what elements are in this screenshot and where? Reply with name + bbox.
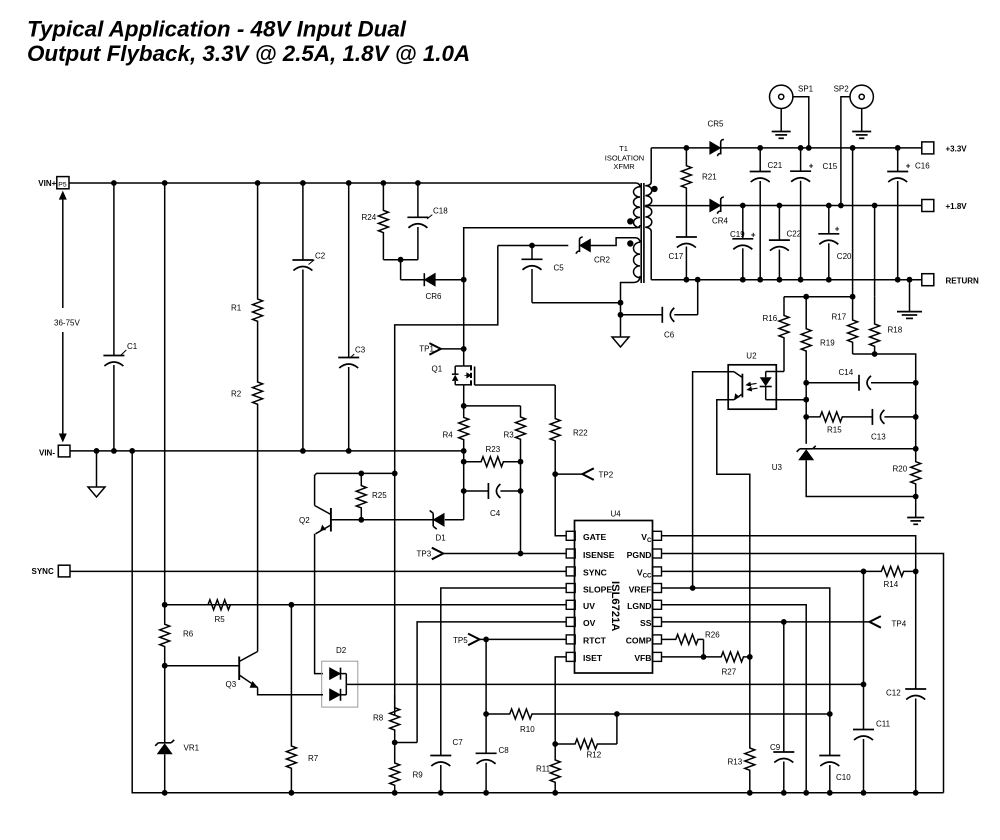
- wire VREF row: [661, 588, 830, 714]
- svg-text:+: +: [809, 161, 814, 170]
- wire Q2 emitter column: [315, 534, 323, 674]
- wire U2 collector: [693, 372, 729, 588]
- test point TP3: [417, 548, 567, 560]
- svg-text:R17: R17: [832, 313, 847, 322]
- node SS / C9 column: [781, 619, 787, 625]
- svg-text:R26: R26: [705, 631, 720, 640]
- resistor R14: [869, 566, 916, 589]
- svg-text:GATE: GATE: [583, 532, 607, 542]
- svg-text:T1: T1: [619, 144, 628, 153]
- svg-text:P5: P5: [58, 181, 67, 188]
- svg-text:VFB: VFB: [634, 653, 651, 663]
- node C4 left: [461, 488, 467, 494]
- node C21 / +3.3V: [757, 145, 763, 151]
- node VIN- / bottom-rail column: [129, 448, 135, 454]
- svg-text:R5: R5: [215, 615, 226, 624]
- wire R8-R9 node to OV column: [395, 742, 417, 744]
- svg-text:R9: R9: [413, 771, 424, 780]
- wire ISET jog: [555, 657, 566, 744]
- terminal RETURN: [922, 274, 979, 286]
- svg-text:U2: U2: [746, 352, 757, 361]
- capacitor C7: [430, 738, 463, 793]
- wire C6 to RETURN: [697, 280, 699, 315]
- node U2 cathode junction: [803, 397, 809, 403]
- test point TP2: [552, 468, 613, 480]
- svg-text:R16: R16: [763, 314, 778, 323]
- node R17 / +3.3V: [850, 145, 856, 151]
- node TP1 junction: [461, 346, 467, 352]
- capacitor C8: [476, 746, 510, 793]
- svg-text:R20: R20: [893, 465, 908, 474]
- wire +1.8V rail right: [721, 205, 922, 207]
- svg-text:R1: R1: [231, 304, 242, 313]
- wire C5 bottom to primary ground: [532, 302, 621, 304]
- transformer T1 core: [641, 183, 644, 283]
- resistor R20: [893, 449, 921, 497]
- wire VIN- rail: [70, 450, 464, 452]
- wire R19 column: [805, 383, 807, 444]
- node C22 / RETURN: [777, 277, 783, 283]
- resistor R18: [870, 297, 903, 354]
- svg-text:C7: C7: [453, 738, 464, 747]
- title text line 1: [27, 17, 407, 42]
- svg-text:D2: D2: [336, 646, 347, 655]
- capacitor C16 polarized: [887, 148, 930, 280]
- svg-text:C12: C12: [886, 689, 901, 698]
- node VREF / U2 collector: [690, 585, 696, 591]
- node VIN+ / C18: [415, 180, 421, 186]
- resistor R15: [806, 412, 848, 435]
- node R8 / R9 junction: [392, 740, 398, 746]
- resistor R5: [165, 600, 292, 624]
- svg-text:PGND: PGND: [627, 550, 652, 560]
- svg-text:R22: R22: [573, 429, 588, 438]
- svg-text:C2: C2: [315, 252, 326, 261]
- capacitor C3: [338, 183, 366, 451]
- node VIN- / C2: [300, 448, 306, 454]
- ground primary: [612, 337, 629, 347]
- resistor R16: [763, 297, 790, 372]
- node C17 / RETURN: [684, 277, 690, 283]
- svg-text:R25: R25: [372, 491, 387, 500]
- transformer primary phase dot: [627, 218, 633, 224]
- svg-text:R7: R7: [308, 754, 319, 763]
- svg-text:COMP: COMP: [626, 636, 652, 646]
- node TP5 / RTCT: [483, 637, 489, 643]
- svg-text:VREF: VREF: [629, 584, 652, 594]
- node R5/R6 junction: [162, 602, 168, 608]
- node C20 / RETURN: [826, 277, 832, 283]
- svg-text:C19: C19: [730, 230, 745, 239]
- svg-text:VIN+: VIN+: [38, 179, 56, 188]
- svg-text:R23: R23: [486, 445, 501, 454]
- resistor R1: [231, 183, 263, 352]
- svg-text:C14: C14: [839, 368, 854, 377]
- node C15 / +3.3V: [798, 145, 804, 151]
- wire +3.3V rail left: [651, 147, 710, 149]
- svg-text:R10: R10: [520, 725, 535, 734]
- optocoupler U2: [728, 352, 776, 410]
- node CR6 / drain column: [461, 277, 467, 283]
- svg-text:ISL6721A: ISL6721A: [609, 581, 621, 631]
- svg-text:D1: D1: [436, 534, 447, 543]
- node SP1 / +3.3V: [806, 145, 812, 151]
- resistor R17: [832, 297, 858, 354]
- node VIN+ / R24: [381, 180, 387, 186]
- svg-text:Q2: Q2: [299, 516, 310, 525]
- wire U2 emitter: [717, 400, 750, 657]
- svg-text:SP2: SP2: [834, 84, 850, 93]
- capacitor C5: [522, 246, 565, 303]
- wire RETURN rail: [651, 279, 922, 281]
- resistor R22: [550, 385, 588, 474]
- node SP2 / +1.8V: [838, 203, 844, 209]
- diode pair D2: [322, 646, 358, 707]
- wire SS row: [661, 621, 870, 623]
- svg-text:Typical Application - 48V Inpu: Typical Application - 48V Input Dual: [27, 17, 407, 42]
- wire +1.8V rail left: [645, 205, 709, 207]
- resistor R26: [661, 631, 720, 645]
- transformer secondary phase dot: [651, 186, 657, 192]
- svg-text:C8: C8: [499, 746, 510, 755]
- svg-text:C16: C16: [915, 162, 930, 171]
- wire PGND row: [661, 554, 944, 793]
- svg-text:LGND: LGND: [627, 601, 651, 611]
- wire U3 cathode to R20: [813, 448, 916, 450]
- wire D2 output row: [358, 683, 864, 685]
- node C6 / RETURN rail: [695, 277, 701, 283]
- node C20 / +1.8V: [826, 203, 832, 209]
- node bottom / C7: [438, 790, 444, 796]
- node C22 / +1.8V: [777, 203, 783, 209]
- svg-text:+3.3V: +3.3V: [946, 145, 968, 154]
- svg-text:C3: C3: [355, 346, 366, 355]
- svg-text:RTCT: RTCT: [583, 636, 607, 646]
- capacitor C1: [103, 183, 137, 451]
- svg-text:C1: C1: [127, 342, 138, 351]
- capacitor C2: [292, 183, 325, 451]
- node bottom / VR1: [162, 790, 168, 796]
- wire source node to R3: [464, 405, 521, 407]
- svg-text:R11: R11: [536, 765, 551, 774]
- wire U2 cathode to R19 node: [776, 399, 806, 401]
- node R10 / C10: [827, 711, 833, 717]
- svg-text:R15: R15: [827, 426, 842, 435]
- svg-text:C18: C18: [433, 207, 448, 216]
- wire Q3 collector: [257, 451, 259, 652]
- op-amp U4 ISL6721A: [566, 510, 661, 674]
- svg-text:TP5: TP5: [453, 636, 468, 645]
- svg-text:SLOPE: SLOPE: [583, 584, 612, 594]
- svg-text:U3: U3: [772, 463, 783, 472]
- svg-text:U4: U4: [611, 510, 622, 519]
- wire SYNC row: [70, 570, 566, 572]
- svg-text:C21: C21: [768, 161, 783, 170]
- wire R26 to VFB node: [703, 639, 705, 657]
- wire Q3 emitter to D2: [258, 688, 323, 695]
- svg-text:C15: C15: [823, 162, 838, 171]
- wire Q2 base row: [331, 519, 433, 521]
- node bottom / R7: [289, 790, 295, 796]
- wire R22 to GATE pin: [555, 474, 566, 536]
- node bottom / C10: [827, 790, 833, 796]
- svg-text:ISET: ISET: [583, 653, 603, 663]
- svg-text:CR2: CR2: [594, 256, 611, 265]
- wire OV row: [417, 622, 566, 743]
- transformer bias winding: [621, 238, 641, 303]
- resistor R2: [231, 352, 263, 451]
- svg-text:VIN-: VIN-: [39, 448, 55, 457]
- diode CR4 schottky: [710, 197, 729, 225]
- wire +3.3V rail right: [721, 147, 922, 149]
- resistor R21: [681, 148, 717, 206]
- node C15 / RETURN: [798, 277, 804, 283]
- node VIN- / ground: [94, 448, 100, 454]
- capacitor C6: [621, 307, 698, 340]
- node bottom / LGND: [803, 790, 809, 796]
- node D2 / C11 column: [861, 682, 867, 688]
- svg-text:OV: OV: [583, 618, 596, 628]
- wire Vc row: [661, 536, 916, 689]
- node bottom / C9: [781, 790, 787, 796]
- wire Vcc row: [661, 570, 869, 572]
- svg-text:C10: C10: [836, 773, 851, 782]
- svg-text:R8: R8: [373, 714, 384, 723]
- capacitor C11 cap: [853, 684, 891, 792]
- wire UV row: [165, 604, 567, 606]
- wire primary ground column: [620, 303, 622, 337]
- capacitor C14: [806, 368, 916, 391]
- diode CR6: [424, 273, 442, 301]
- node R27 / U2 emitter column: [747, 654, 753, 660]
- capacitor C21: [750, 148, 783, 280]
- ground RETURN: [897, 280, 922, 319]
- svg-text:Q1: Q1: [432, 365, 443, 374]
- resistor R17 upper lead: [852, 148, 854, 297]
- svg-text:SS: SS: [640, 618, 652, 628]
- wire left column R23-C4: [463, 462, 465, 491]
- wire C5 top corner: [498, 245, 532, 247]
- svg-text:R12: R12: [587, 751, 602, 760]
- wire CR6 to drain node: [435, 279, 463, 281]
- svg-text:C13: C13: [871, 433, 886, 442]
- wire Q2 collector loop: [315, 473, 395, 505]
- svg-text:VR1: VR1: [184, 744, 200, 753]
- svg-text:C4: C4: [490, 509, 501, 518]
- node R5 / R7 top: [289, 602, 295, 608]
- node VIN+ / C1: [111, 180, 117, 186]
- svg-text:TP3: TP3: [417, 550, 432, 559]
- terminal VIN+ P5: [38, 177, 69, 189]
- diode CR2 schottky: [576, 237, 610, 264]
- node TP3 / ISENSE column: [518, 551, 524, 557]
- node C19 / RETURN: [740, 277, 746, 283]
- svg-text:XFMR: XFMR: [613, 162, 635, 171]
- node R25 bottom / Q2 base: [358, 517, 364, 523]
- node C16 / +3.3V: [895, 145, 901, 151]
- svg-text:SP1: SP1: [798, 84, 814, 93]
- capacitor C9: [770, 622, 794, 793]
- node bottom / C11: [861, 790, 867, 796]
- svg-text:TP2: TP2: [599, 471, 614, 480]
- node C5 top: [529, 243, 535, 249]
- wire snubber to CR6: [401, 260, 425, 280]
- shunt reference U3: [772, 446, 816, 472]
- wire drain column: [463, 280, 465, 349]
- capacitor C13: [848, 409, 916, 442]
- wire primary return: [464, 228, 629, 280]
- terminal VIN-: [39, 445, 70, 457]
- wire Q1 gate: [475, 384, 556, 386]
- svg-text:R3: R3: [504, 431, 515, 440]
- wire CR2 anode to bias winding: [591, 238, 632, 246]
- wire R23 column upper: [463, 451, 465, 462]
- capacitor C19 polarized: [730, 206, 756, 280]
- zener VR1: [155, 666, 199, 793]
- wire VIN- to ground: [96, 451, 98, 487]
- node R16/R19/R17 tie top: [803, 294, 855, 300]
- wire right column R23-C4-ISENSE: [520, 462, 522, 554]
- resistor R3: [504, 406, 526, 462]
- svg-text:Q3: Q3: [226, 680, 237, 689]
- node C4 right: [518, 488, 524, 494]
- wire U3 anode: [806, 460, 916, 496]
- node R20 top: [913, 446, 919, 452]
- node ISET / R12 / R11: [552, 741, 558, 747]
- resistor R13: [728, 657, 755, 793]
- svg-text:R24: R24: [362, 213, 377, 222]
- wire R12 column: [616, 714, 618, 744]
- transformer secondary winding upper: [645, 148, 652, 206]
- node Vcc / C11 column: [861, 569, 867, 575]
- terminal SYNC: [32, 565, 71, 577]
- wire R17/R18 bottoms: [853, 354, 916, 383]
- svg-text:R27: R27: [722, 668, 737, 677]
- resistor R4: [443, 406, 469, 451]
- node R18 bottom: [872, 351, 878, 357]
- node R10 / R12 column: [614, 711, 620, 717]
- node VIN+ / C3: [346, 180, 352, 186]
- svg-text:TP4: TP4: [892, 620, 907, 629]
- svg-text:RETURN: RETURN: [946, 276, 980, 285]
- ground U3/R20: [907, 497, 924, 525]
- node bottom / C12: [913, 790, 919, 796]
- svg-text:Output Flyback, 3.3V @ 2.5A, 1: Output Flyback, 3.3V @ 2.5A, 1.8V @ 1.0A: [27, 41, 470, 66]
- svg-text:C20: C20: [837, 252, 852, 261]
- wire RTCT row: [486, 638, 566, 640]
- probe SP2: [834, 84, 874, 205]
- resistor R18 upper lead: [874, 206, 876, 297]
- transformer bias phase dot: [627, 240, 633, 246]
- node RETURN / ground: [907, 277, 913, 283]
- svg-text:R4: R4: [443, 431, 454, 440]
- svg-text:R21: R21: [702, 173, 717, 182]
- node bottom / R11: [552, 790, 558, 796]
- node Q2 collector tie: [392, 471, 398, 477]
- node C5 bottom / primary ground: [618, 300, 624, 306]
- svg-text:C17: C17: [669, 252, 684, 261]
- wire U2 anode to R16: [776, 371, 784, 373]
- wire VIN+ rail: [69, 182, 629, 184]
- probe SP1: [770, 84, 814, 148]
- wire SLOPE row: [441, 588, 566, 756]
- node R21 top: [684, 145, 690, 151]
- node R14 / Vc column: [913, 569, 919, 575]
- resistor R12: [555, 739, 617, 760]
- wire TP1 node to Q1 drain: [463, 349, 465, 366]
- svg-text:R14: R14: [884, 580, 899, 589]
- wire R10 row to VREF column: [617, 713, 830, 715]
- wire R16-R17 tie: [784, 296, 853, 298]
- node R23 right: [518, 459, 524, 465]
- capacitor C12: [886, 689, 926, 793]
- svg-text:R19: R19: [820, 339, 835, 348]
- wire bottom ground rail: [132, 451, 943, 793]
- wire VFB row: [661, 656, 715, 658]
- node VIN- / C1: [111, 448, 117, 454]
- capacitor C22: [769, 206, 802, 280]
- wire C11 column: [863, 571, 865, 684]
- diode CR5 schottky: [708, 120, 725, 157]
- svg-text:R2: R2: [231, 390, 242, 399]
- node snubber junction: [398, 257, 404, 263]
- node bottom / C8: [483, 790, 489, 796]
- capacitor C17: [669, 206, 697, 280]
- svg-text:C6: C6: [664, 331, 675, 340]
- transistor Q1: [432, 365, 475, 386]
- test point TP5: [453, 634, 486, 646]
- wire 36-75V span arrow: [59, 191, 67, 443]
- svg-text:SYNC: SYNC: [583, 568, 607, 578]
- resistor R10: [486, 709, 617, 734]
- node C19 / +1.8V: [740, 203, 746, 209]
- wire R8 column: [394, 473, 396, 715]
- terminal +1.8V: [922, 200, 967, 212]
- transistor Q3 NPN: [165, 652, 259, 690]
- wire slope feed column: [395, 246, 498, 474]
- node VIN+ / C2: [300, 180, 306, 186]
- transistor Q2 PNP: [299, 506, 331, 534]
- label 36-75V: [54, 318, 80, 327]
- node Q1 source / R3 branch: [461, 403, 467, 409]
- wire R24-C18 join: [383, 259, 418, 261]
- resistor R11: [536, 744, 560, 793]
- capacitor C10: [819, 714, 851, 793]
- svg-text:SYNC: SYNC: [32, 567, 54, 576]
- resistor R24: [362, 183, 389, 260]
- wire left column C4-D1: [463, 491, 465, 520]
- transformer T1 label: [605, 144, 644, 171]
- node bottom / R13: [747, 790, 753, 796]
- svg-text:C5: C5: [554, 264, 565, 273]
- test point TP1: [419, 343, 463, 355]
- capacitor C15 polarized: [790, 148, 838, 280]
- capacitor C4: [464, 483, 521, 518]
- resistor R23: [464, 445, 521, 467]
- test point TP4: [870, 616, 907, 628]
- svg-text:+: +: [835, 225, 840, 234]
- resistor R19: [801, 297, 835, 383]
- node R6 / Q3 base: [162, 663, 168, 669]
- svg-text:C9: C9: [770, 743, 781, 752]
- capacitor C18: [407, 183, 448, 260]
- svg-text:R18: R18: [888, 326, 903, 335]
- svg-text:ISENSE: ISENSE: [583, 550, 615, 560]
- wire C14-C13 right column: [915, 383, 917, 449]
- node C14 left: [803, 380, 809, 386]
- wire LGND row: [661, 605, 806, 793]
- node R15 left: [803, 414, 809, 420]
